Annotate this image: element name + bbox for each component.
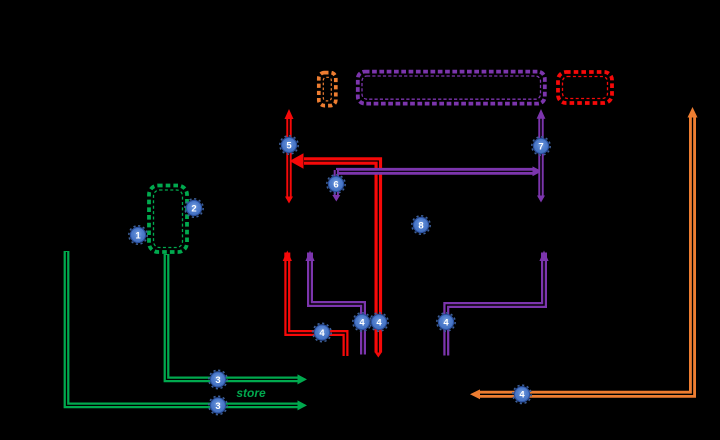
- badge 5: [280, 136, 298, 154]
- svg-text:3: 3: [215, 375, 220, 386]
- wire: green path A (left vertical + bottom msg arrow): [67, 251, 308, 410]
- svg-text:6: 6: [333, 179, 338, 190]
- svg-text:4: 4: [519, 390, 525, 401]
- badge 8: [412, 216, 430, 234]
- wire: purple stub with down arrow (under badge 6): [332, 170, 340, 202]
- badge 4 (purple mid): [353, 313, 371, 331]
- badge 3 (lower msg): [209, 396, 227, 414]
- badge 3 (upper msg): [209, 370, 227, 388]
- svg-text:2: 2: [191, 203, 196, 214]
- wire: red thick horizontal with left arrow + long vertical down: [290, 153, 382, 357]
- svg-text:4: 4: [376, 317, 382, 328]
- wire: purple horizontal (badge 6 to badge 7 lifeline): [336, 166, 542, 176]
- svg-text:4: 4: [443, 317, 449, 328]
- badge 4 (red long vertical): [370, 313, 388, 331]
- wire: green path B (from box bottom + upper msg arrow): [167, 254, 308, 384]
- wire: red vertical with up/down arrows (left of badge 5): [285, 109, 294, 204]
- wire: purple right path (up arrow at x544, down to x446): [446, 251, 548, 356]
- badge 4 (red L): [313, 323, 331, 341]
- svg-text:1: 1: [135, 230, 141, 241]
- svg-text:4: 4: [319, 328, 325, 339]
- svg-text:7: 7: [538, 141, 543, 152]
- orange dashed box: [319, 73, 336, 106]
- svg-text:3: 3: [215, 401, 220, 412]
- wire: red L path bottom-left (up arrow): [283, 251, 346, 357]
- green dashed box (node): [149, 186, 187, 253]
- red dashed box: [558, 72, 612, 103]
- badge 6: [327, 175, 345, 193]
- svg-text:5: 5: [286, 140, 292, 151]
- svg-text:4: 4: [359, 317, 365, 328]
- badge 4 (purple right): [437, 313, 455, 331]
- wire: orange path (tall right vertical + bottom arrow left): [470, 107, 698, 399]
- badge 1: [129, 226, 147, 244]
- badge 7: [532, 137, 550, 155]
- badge 2: [185, 199, 203, 217]
- wire: purple mid path (up arrow at x310, down to x363): [305, 251, 363, 355]
- svg-text:store: store: [236, 386, 266, 400]
- purple dashed box: [358, 72, 545, 104]
- svg-text:8: 8: [418, 220, 423, 231]
- badge 4 (orange): [513, 385, 531, 403]
- wire: purple vertical with up/down arrows (badge 7): [537, 109, 546, 203]
